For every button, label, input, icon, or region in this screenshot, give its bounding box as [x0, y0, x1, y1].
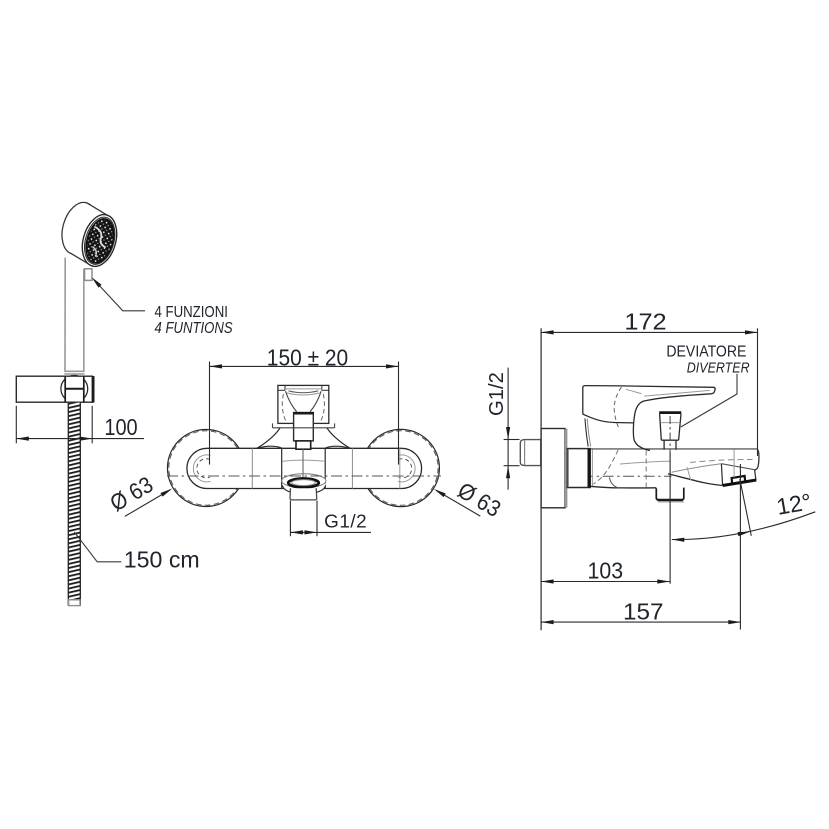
front handle block	[278, 385, 329, 423]
G1/2 collar front	[290, 488, 317, 500]
svg-text:DEVIATORE: DEVIATORE	[666, 344, 746, 361]
dimension 150 ± 20	[210, 362, 399, 465]
svg-text:150 cm: 150 cm	[124, 546, 200, 572]
locknut	[567, 449, 590, 488]
svg-text:172: 172	[624, 308, 666, 334]
svg-text:4 FUNTIONS: 4 FUNTIONS	[155, 320, 233, 337]
mixer body side	[590, 449, 759, 488]
dimension 172	[541, 328, 757, 456]
shower handle	[64, 258, 84, 375]
centreline front	[167, 475, 441, 477]
svg-text:103: 103	[588, 557, 624, 583]
mixer body bar	[187, 448, 422, 488]
svg-text:G1/2: G1/2	[486, 372, 508, 416]
diverter bottom port	[656, 488, 684, 500]
dimension G1/2 front	[290, 501, 371, 537]
right escutcheon	[362, 429, 439, 506]
centreline side	[541, 475, 671, 477]
flexible hose 150cm	[68, 403, 80, 606]
4-function button	[85, 269, 92, 281]
handle base plate	[273, 423, 335, 427]
dimension 157	[541, 621, 741, 623]
svg-text:4 FUNZIONI: 4 FUNZIONI	[155, 304, 228, 321]
spout axis	[739, 464, 741, 630]
label Ø63 right	[436, 490, 480, 516]
dimension G1/2 side	[504, 368, 520, 490]
svg-text:150 ± 20: 150 ± 20	[267, 345, 348, 371]
12° arc	[672, 512, 816, 540]
centre section	[282, 448, 326, 488]
G1/2 nipple	[520, 440, 541, 466]
label 4 FUNZIONI / 4 FUNTIONS leader	[94, 280, 145, 311]
svg-text:100: 100	[104, 414, 137, 440]
dimension 103	[541, 581, 670, 583]
front lever grip	[294, 413, 314, 441]
spout cup + aerator	[282, 479, 325, 493]
wall line	[540, 328, 542, 630]
svg-text:157: 157	[623, 599, 664, 625]
lever side	[583, 386, 715, 451]
label 150 cm leader	[74, 532, 121, 562]
left escutcheon	[168, 429, 440, 506]
wall bracket	[61, 375, 88, 402]
svg-text:DIVERTER: DIVERTER	[687, 359, 750, 376]
wall plate	[541, 429, 565, 508]
label Ø63 left	[125, 490, 170, 517]
svg-text:G1/2: G1/2	[324, 512, 367, 532]
bar cap hidden arcs	[193, 448, 415, 488]
hand shower head	[56, 198, 122, 270]
diverter axis	[669, 416, 671, 452]
diverter knob	[660, 414, 681, 441]
dimension 100	[16, 406, 144, 444]
12° tilted line	[740, 479, 752, 536]
body shoulders	[257, 428, 350, 449]
